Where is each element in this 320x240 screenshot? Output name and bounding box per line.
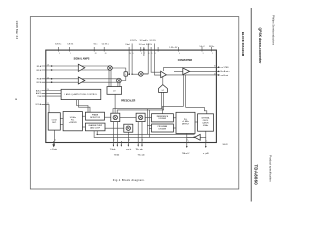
svg-text:L: L	[125, 74, 126, 76]
svg-text:a.o.B out: a.o.B out	[221, 74, 229, 77]
svg-text:n.u VTES: n.u VTES	[221, 67, 230, 69]
svg-text:32: 32	[214, 73, 216, 75]
wire top pin to mixer3 left	[143, 50, 148, 74]
wire AGC output a	[77, 100, 89, 113]
svg-text:s.co fx: s.co fx	[126, 149, 131, 151]
wire G-H connector	[195, 121, 198, 123]
wire top pin to mixer3	[132, 50, 139, 74]
svg-text:5V B.c: 5V B.c	[209, 46, 215, 48]
wire D-PD2 connector	[105, 127, 124, 129]
wire t1 to LC tank	[162, 77, 164, 85]
svg-text:±128/129: ±128/129	[69, 122, 77, 124]
top pin stubs	[57, 47, 59, 52]
wire PD3-E connector	[145, 116, 151, 118]
arrowhead into phase shifter	[128, 73, 130, 75]
block B PLL divider	[63, 112, 82, 131]
block E reference divider	[152, 114, 174, 122]
wire block A to pin	[54, 130, 56, 146]
wire IF input 1b	[42, 69, 111, 71]
amp triangle 2	[78, 77, 85, 84]
wire AGC output b	[79, 100, 91, 113]
wire AGC lead 3	[42, 95, 62, 97]
svg-text:X buf: X buf	[125, 44, 130, 46]
phase detector box PD1	[111, 113, 120, 121]
svg-text:TB.c obr: TB.c obr	[136, 148, 143, 151]
amp triangle 1	[78, 64, 85, 71]
wire AGC lead 2	[42, 92, 62, 94]
wire B-D connector	[82, 126, 85, 128]
svg-text:CONVERTER: CONVERTER	[178, 60, 193, 62]
wire phase box to mixer2	[121, 76, 126, 80]
svg-text:TS.o obr: TS.o obr	[137, 153, 144, 156]
wire top pin xtal stub	[143, 50, 145, 56]
svg-text:I AND Q AMPLITUDE CONTROL: I AND Q AMPLITUDE CONTROL	[65, 93, 98, 96]
svg-text:5.4 c2: 5.4 c2	[199, 46, 204, 48]
svg-text:26: 26	[105, 53, 107, 55]
wire t2 down pair b	[186, 75, 207, 114]
svg-text:IF1 B: IF1 B	[37, 70, 42, 72]
svg-text:5.4 1% c: 5.4 1% c	[102, 44, 109, 46]
mixer M3	[139, 72, 144, 77]
phase detector box PD2	[124, 124, 133, 132]
phase shifter small box	[124, 72, 128, 76]
wire H pin down	[205, 137, 207, 146]
svg-text:PRESCALER: PRESCALER	[121, 99, 136, 102]
wire bus to F feed a	[146, 109, 148, 135]
wire t2 down pair a	[163, 75, 184, 114]
svg-text:QPSK down-converter: QPSK down-converter	[258, 28, 262, 65]
svg-text:T.I bob: T.I bob	[110, 149, 116, 151]
svg-text:30: 30	[214, 66, 216, 68]
wire t3 input from H	[200, 131, 206, 137]
mixer M1	[108, 66, 113, 71]
svg-text:AGC2: AGC2	[36, 92, 41, 95]
svg-text:MBK421: MBK421	[223, 144, 229, 146]
svg-text:1998 Mar 24: 1998 Mar 24	[15, 21, 19, 40]
svg-text:24: 24	[47, 89, 49, 91]
svg-text:10: 10	[130, 53, 132, 55]
block F programmable divider	[152, 124, 174, 132]
wire G to bottom pin	[186, 134, 188, 147]
svg-text:AND LOOP: AND LOOP	[90, 127, 100, 130]
buffer triangle t3 pointing left	[195, 134, 201, 140]
LC tank pentagon	[159, 85, 168, 93]
wire mixer1 down pair	[108, 70, 110, 87]
wire B-C connector	[82, 115, 85, 117]
wire F-G connector	[173, 127, 176, 129]
svg-text:DIVIDER: DIVIDER	[159, 118, 167, 120]
svg-text:5.8 1%: 5.8 1%	[67, 44, 73, 46]
svg-text:4 MHz: 4 MHz	[203, 125, 208, 127]
svg-text:DIVIDER: DIVIDER	[159, 129, 167, 131]
header rule (rotated page)	[250, 8, 252, 202]
svg-text:s.C bob: s.C bob	[50, 149, 56, 151]
svg-text:3.O 1%: 3.O 1%	[146, 44, 153, 46]
IC boundary box	[46, 50, 217, 142]
svg-text:3.O 1%: 3.O 1%	[150, 40, 157, 42]
svg-text:14: 14	[142, 140, 144, 142]
svg-text:1.35 c.3V: 1.35 c.3V	[169, 47, 178, 49]
phase detector box PD3	[136, 113, 145, 121]
block H crystal oscillator	[198, 114, 214, 131]
wire IF input 2a	[42, 78, 119, 80]
block D charge pump	[85, 123, 105, 131]
svg-text:a. j.oW: a. j.oW	[203, 153, 209, 155]
block A lock detector	[48, 113, 60, 130]
svg-text:Fig.1 Block diagram.: Fig.1 Block diagram.	[113, 178, 146, 182]
svg-text:B.o.B out c: B.o.B out c	[221, 70, 230, 73]
svg-text:IF2 B: IF2 B	[37, 82, 42, 84]
svg-text:X OUT c: X OUT c	[130, 40, 137, 42]
wire mid bus lower	[117, 92, 164, 113]
wire PD3 down pins	[137, 122, 139, 147]
wire IF input 1a	[42, 65, 111, 67]
buffer triangle t1	[161, 71, 167, 77]
wire mid bus upper	[113, 92, 162, 113]
arrowheads output pins	[218, 66, 220, 68]
block G PLL detector	[176, 112, 195, 133]
wire IF input 2b	[42, 81, 119, 83]
arrowhead up at xtal pin	[143, 48, 145, 50]
wire A-B connectors	[60, 118, 63, 120]
svg-text:Philips Semiconductors: Philips Semiconductors	[271, 15, 275, 46]
svg-text:3.O outF c: 3.O outF c	[140, 39, 149, 42]
svg-text:28: 28	[95, 53, 97, 55]
wire mixer1 to phase box	[112, 68, 126, 72]
svg-text:SIGNAL AMPS: SIGNAL AMPS	[74, 57, 90, 60]
block C phase detector	[85, 112, 104, 120]
svg-text:VCO A: VCO A	[35, 103, 41, 106]
wire prescaler output	[114, 94, 116, 113]
wire AGC lead 1	[42, 90, 62, 92]
svg-text:T.Bb o.IV: T.Bb o.IV	[182, 153, 190, 155]
junction dots	[51, 65, 53, 67]
svg-text:DETECT: DETECT	[182, 124, 190, 126]
block AGC amplitude control	[61, 89, 101, 99]
wire C-PD1 connector	[105, 116, 111, 118]
wires group	[42, 44, 219, 147]
wire mixer2 down pair	[117, 82, 119, 86]
wire PD1 down pins	[112, 122, 114, 147]
svg-text:18: 18	[113, 140, 115, 142]
svg-text:26: 26	[47, 77, 49, 79]
svg-text:Product specification: Product specification	[268, 155, 272, 182]
wire bus to F feed b	[148, 110, 150, 137]
svg-text:6.8 Vcc: 6.8 Vcc	[55, 44, 61, 46]
wire output lead 2	[190, 70, 219, 72]
svg-text:28: 28	[47, 65, 49, 67]
wire E-G connector	[173, 117, 176, 119]
svg-text:DET.: DET.	[52, 122, 57, 124]
svg-text:DETECTOR: DETECTOR	[90, 117, 101, 119]
wire t3 output to pin	[187, 136, 195, 138]
svg-text:20: 20	[54, 140, 56, 142]
wire PD2 down pin	[127, 132, 129, 146]
wire top pin to LC tank	[155, 50, 161, 75]
svg-text:BLOCK DIAGRAM: BLOCK DIAGRAM	[241, 32, 245, 57]
wire output lead 3	[166, 74, 218, 76]
svg-text:T.B bb: T.B bb	[114, 154, 119, 156]
svg-text:22: 22	[47, 103, 49, 105]
bottom pin stubs	[53, 141, 55, 146]
svg-text:16: 16	[128, 140, 130, 142]
buffer triangle t2	[183, 68, 190, 75]
svg-text:3.O out: 3.O out	[139, 43, 146, 46]
mixer M2	[117, 78, 122, 83]
wire left lead 4 to block A	[42, 104, 50, 112]
wire bottom bus upper	[97, 131, 194, 135]
bottom pin arrowheads	[113, 145, 143, 147]
block prescaler	[107, 87, 122, 95]
wire bottom bus lower	[94, 131, 195, 138]
wire output lead 1	[164, 68, 219, 71]
arrowheads bottom pins	[186, 146, 188, 148]
svg-text:TDA8060: TDA8060	[253, 165, 258, 186]
wire t2 input segment	[174, 70, 183, 72]
figure frame	[30, 17, 239, 189]
svg-text:9.1 c: 9.1 c	[94, 44, 98, 46]
wire top pin to phase box arrow	[128, 50, 129, 74]
svg-text:AGC1: AGC1	[36, 89, 41, 92]
wire top pin to buffer t1	[151, 50, 161, 72]
wire mixer3 to buffer t1	[143, 73, 148, 75]
wire PD1-PD3 connector	[120, 116, 136, 118]
